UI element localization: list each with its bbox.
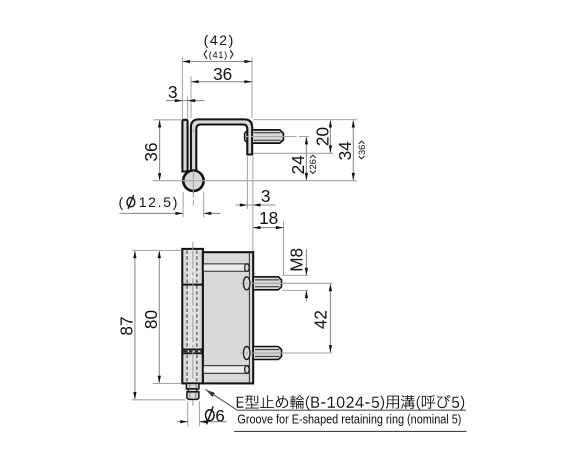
svg-text:34: 34 — [335, 141, 355, 161]
pin knuckle circle (top view) — [183, 171, 203, 191]
dimension 18 — [253, 208, 284, 229]
knuckle joint line A — [182, 284, 203, 286]
svg-text:12.5): 12.5) — [139, 194, 179, 210]
knuckle column (side view) — [182, 249, 203, 384]
dimension 80 — [141, 251, 161, 384]
dimension M8 — [282, 248, 308, 302]
extension line arm-inner — [246, 157, 248, 209]
svg-text:(42): (42) — [204, 32, 235, 48]
svg-text:26: 26 — [308, 159, 318, 169]
threaded stud (top view) — [252, 130, 283, 143]
extension line plate-right — [187, 97, 189, 119]
svg-text:18: 18 — [259, 208, 278, 228]
dimension 20 — [312, 120, 332, 153]
note English text — [234, 411, 467, 431]
extension line arm-bottom — [254, 152, 334, 154]
stud centerline (top view) — [246, 136, 309, 138]
dimension 3 (plate thickness) — [166, 82, 204, 102]
upper stud (side view) — [253, 277, 281, 290]
hidden pin line right — [196, 251, 198, 383]
lower flange band — [203, 366, 250, 374]
svg-text:3: 3 — [261, 186, 271, 206]
dimension (36) alt — [357, 141, 367, 159]
svg-text:87: 87 — [117, 316, 137, 335]
lower stud root ellipse — [243, 347, 250, 360]
pin end with E-ring groove — [186, 383, 199, 399]
body plate (side view) — [203, 252, 253, 383]
extension line bracket-left — [190, 77, 192, 119]
hinge leaf plate (top view) — [182, 120, 187, 172]
dimension 42 — [310, 284, 332, 353]
svg-text:3: 3 — [168, 82, 178, 102]
upper stud centerline — [241, 282, 332, 284]
dimension ((41)) alt — [204, 50, 233, 60]
dimension 3 (arm thickness) — [236, 186, 276, 207]
svg-text:(: ( — [119, 194, 124, 210]
extension line bracket-right-top — [251, 58, 253, 119]
extension line plate-left — [181, 58, 183, 120]
svg-text:20: 20 — [312, 127, 332, 146]
hidden pin line left — [186, 251, 188, 383]
dimension 34 — [335, 120, 355, 181]
leader to E-ring groove — [205, 389, 466, 410]
mounting face line — [248, 252, 250, 383]
svg-text:36: 36 — [357, 145, 367, 155]
lower stud centerline — [241, 352, 332, 354]
svg-text:M8: M8 — [287, 248, 307, 272]
extension line top-edge-right — [254, 119, 357, 121]
dimension 87 — [117, 251, 137, 400]
note Japanese text — [237, 395, 464, 410]
dimension 24 — [288, 137, 308, 181]
svg-text:36: 36 — [141, 142, 161, 161]
svg-text:80: 80 — [141, 310, 161, 329]
svg-text:Groove for E-shaped retaining: Groove for E-shaped retaining ring (nomi… — [237, 411, 461, 426]
extension line arm-outer — [252, 157, 254, 252]
extension line 80-bottom — [153, 383, 182, 385]
svg-text:42: 42 — [310, 310, 330, 329]
knuckle joint line B — [182, 349, 203, 353]
dimension (26) alt — [308, 155, 318, 173]
dimension 36 (height) — [141, 120, 161, 181]
pin vertical centerline (top view) — [192, 129, 194, 206]
stud back end (top view) — [245, 132, 254, 142]
extension line 87-bottom — [132, 399, 186, 401]
extension line column-top-left — [132, 249, 182, 251]
bracket profile (top view) — [191, 119, 252, 173]
svg-text:(41): (41) — [209, 50, 228, 60]
svg-text:24: 24 — [288, 155, 308, 175]
dimension phi6 — [177, 401, 227, 426]
pin centerline (side view) — [192, 242, 194, 406]
upper stud root ellipse — [243, 277, 250, 290]
dimension (42) — [182, 32, 252, 63]
dimension 36 (width) — [191, 64, 252, 84]
extension line top-left — [154, 119, 182, 121]
lower stud (side view) — [253, 347, 281, 360]
dimension (phi12.5) — [119, 192, 221, 217]
upper flange band — [203, 264, 250, 272]
pin horizontal centerline — [153, 180, 357, 182]
svg-text:36: 36 — [213, 64, 232, 84]
svg-text:6: 6 — [215, 406, 224, 425]
extension line stud-tip — [283, 221, 285, 275]
